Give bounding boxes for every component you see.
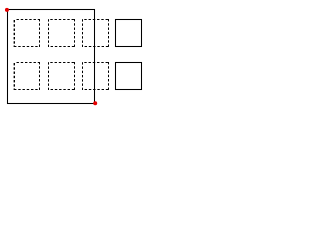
dashed box row1 col2 — [48, 19, 75, 47]
dashed box row2 col3 (overhangs container edge) — [82, 62, 109, 90]
solid square top right (outside container) — [116, 20, 142, 47]
red handle top-left — [5, 8, 9, 12]
container rectangle (selected element outline) — [8, 10, 95, 104]
dashed box row1 col3 (overhangs container edge) — [82, 19, 109, 47]
dashed box row1 col1 — [14, 19, 40, 47]
red handle bottom-right — [93, 101, 97, 105]
dashed box row2 col1 — [14, 62, 40, 90]
solid square bottom right (outside container) — [116, 63, 142, 90]
dashed box row2 col2 — [48, 62, 75, 90]
